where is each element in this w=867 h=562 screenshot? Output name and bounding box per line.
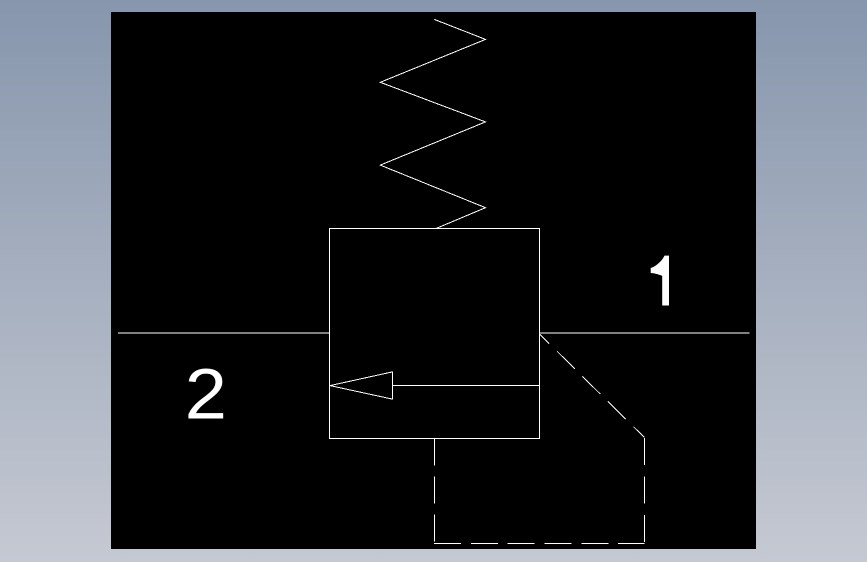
flow arrow (open triangle pointing left): [330, 372, 392, 399]
pilot line diagonal (dashed): [540, 335, 644, 438]
spring (zigzag): [380, 19, 485, 228]
flow arrow shaft: [392, 385, 539, 387]
port label 2: [185, 354, 227, 434]
port label 1: [651, 256, 669, 306]
valve body (square): [330, 229, 540, 439]
drawing canvas (black CAD viewport): [111, 12, 756, 549]
pilot line bottom horizontal (dashed): [434, 542, 645, 544]
pilot line right vertical (dashed): [643, 438, 645, 543]
wire port 2 (left horizontal line): [118, 332, 330, 334]
svg-text:2: 2: [185, 354, 227, 434]
pilot line left vertical (dashed): [434, 438, 436, 543]
wire port 1 (right horizontal line): [540, 332, 750, 334]
